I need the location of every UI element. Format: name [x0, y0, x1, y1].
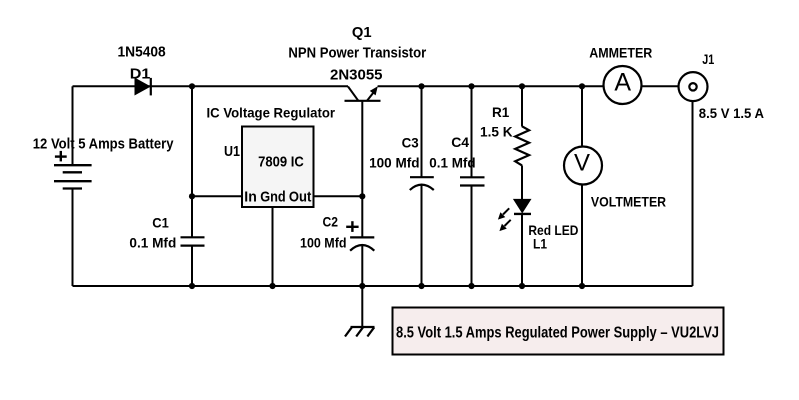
svg-text:AMMETER: AMMETER	[589, 45, 652, 61]
wire base rail upper (Q1 base to C2)	[361, 101, 363, 237]
transistor Q1 emitter with arrow	[367, 86, 378, 101]
svg-text:1.5 K: 1.5 K	[480, 124, 513, 140]
svg-text:12 Volt 5 Amps Battery: 12 Volt 5 Amps Battery	[33, 135, 174, 152]
wire to ground symbol	[361, 286, 363, 327]
wire top rail left segment	[73, 85, 349, 87]
svg-text:1N5408: 1N5408	[118, 44, 166, 61]
svg-text:NPN Power Transistor: NPN Power Transistor	[288, 45, 426, 62]
resistor R1 zigzag	[515, 126, 529, 165]
transistor Q1 collector	[348, 87, 358, 101]
wire battery positive lead	[72, 86, 74, 165]
junction dot bottom C4	[468, 283, 474, 289]
svg-text:C3: C3	[402, 134, 419, 150]
diode D1	[135, 78, 151, 96]
transistor Q1 base bar	[345, 100, 381, 102]
wire IC Gnd pin	[272, 207, 274, 286]
LED light arrow 1	[498, 208, 509, 219]
wire battery negative lead	[72, 189, 74, 287]
wire C4 rail lower	[471, 186, 473, 287]
connector J1 inner ring	[689, 83, 696, 90]
battery plus sign	[55, 151, 67, 162]
wire LED cathode lead	[521, 214, 523, 286]
ground symbol	[345, 327, 375, 337]
wire IC In pin	[192, 195, 242, 197]
junction dot bottom Gnd pin	[269, 283, 275, 289]
svg-text:2N3055: 2N3055	[330, 66, 383, 83]
wire C4 rail upper	[471, 86, 473, 177]
svg-text:Out: Out	[289, 189, 311, 206]
svg-text:In: In	[244, 189, 256, 206]
LED L1 cathode bar	[514, 213, 531, 215]
capacitor C3 plates	[410, 177, 434, 190]
capacitor C1 plates	[181, 237, 205, 245]
junction dot bottom C2/ground	[359, 283, 365, 289]
wire voltmeter bottom lead	[581, 184, 583, 286]
battery BT1 plates	[54, 165, 92, 188]
svg-text:J1: J1	[702, 51, 714, 67]
svg-text:A: A	[614, 68, 631, 96]
wire voltmeter top lead	[581, 86, 583, 146]
junction dot R1 top	[519, 83, 525, 89]
junction dot voltmeter top	[579, 83, 585, 89]
svg-text:0.1 Mfd: 0.1 Mfd	[129, 235, 176, 251]
svg-text:L1: L1	[533, 236, 547, 252]
wire top rail emitter-to-ammeter segment	[378, 85, 604, 87]
junction dot bottom C3	[418, 283, 424, 289]
LED light arrow 2	[499, 220, 510, 231]
junction dot C4 top	[468, 83, 474, 89]
svg-text:D1: D1	[130, 66, 151, 83]
voltmeter M2 circle	[564, 147, 602, 185]
wire R1-to-LED lead	[521, 165, 523, 199]
svg-text:8.5 V 1.5 A: 8.5 V 1.5 A	[699, 105, 764, 121]
wire C3 rail lower	[421, 185, 423, 286]
wire base rail lower (C2 to bottom)	[361, 246, 363, 286]
wire bottom ground rail	[73, 285, 693, 287]
title box	[393, 308, 724, 355]
svg-text:7809 IC: 7809 IC	[258, 154, 304, 171]
connector J1 outer circle	[679, 72, 708, 101]
svg-text:C1: C1	[152, 215, 169, 231]
svg-text:IC Voltage Regulator: IC Voltage Regulator	[207, 105, 336, 121]
capacitor C4 plates	[460, 177, 485, 185]
capacitor C2 plus sign	[346, 221, 358, 232]
wire C3 rail upper	[421, 86, 423, 177]
wire input rail x=192 upper	[191, 86, 193, 237]
junction dot bottom voltmeter	[579, 283, 585, 289]
svg-text:8.5 Volt 1.5 Amps Regulated Po: 8.5 Volt 1.5 Amps Regulated Power Supply…	[396, 325, 719, 342]
LED L1 triangle	[514, 199, 531, 212]
ammeter M1 circle	[604, 66, 642, 104]
svg-text:VOLTMETER: VOLTMETER	[591, 194, 666, 210]
junction dot bottom LED	[519, 283, 525, 289]
svg-text:V: V	[574, 149, 590, 176]
svg-text:R1: R1	[492, 104, 509, 120]
junction dot IC In node	[189, 193, 195, 199]
junction dot C3 top	[418, 83, 424, 89]
wire J1 down lead	[692, 90, 694, 286]
junction dot diode-C1 node top	[189, 83, 195, 89]
capacitor C2 plates	[350, 237, 374, 250]
wire ammeter-to-J1 segment	[642, 85, 679, 87]
wire input rail x=192 lower	[191, 246, 193, 286]
svg-text:U1: U1	[224, 143, 240, 160]
IC box U1	[242, 127, 314, 208]
svg-text:0.1 Mfd: 0.1 Mfd	[429, 155, 475, 171]
svg-text:100 Mfd: 100 Mfd	[300, 235, 347, 251]
svg-text:100 Mfd: 100 Mfd	[369, 155, 419, 171]
wire IC Out pin	[314, 195, 363, 197]
junction dot bottom C1	[189, 283, 195, 289]
svg-text:C4: C4	[451, 134, 469, 150]
svg-text:Gnd: Gnd	[260, 189, 286, 206]
svg-text:C2: C2	[323, 214, 339, 230]
svg-text:Q1: Q1	[352, 24, 372, 41]
wire R1 top lead	[521, 86, 523, 126]
junction dot IC Out node	[359, 193, 365, 199]
